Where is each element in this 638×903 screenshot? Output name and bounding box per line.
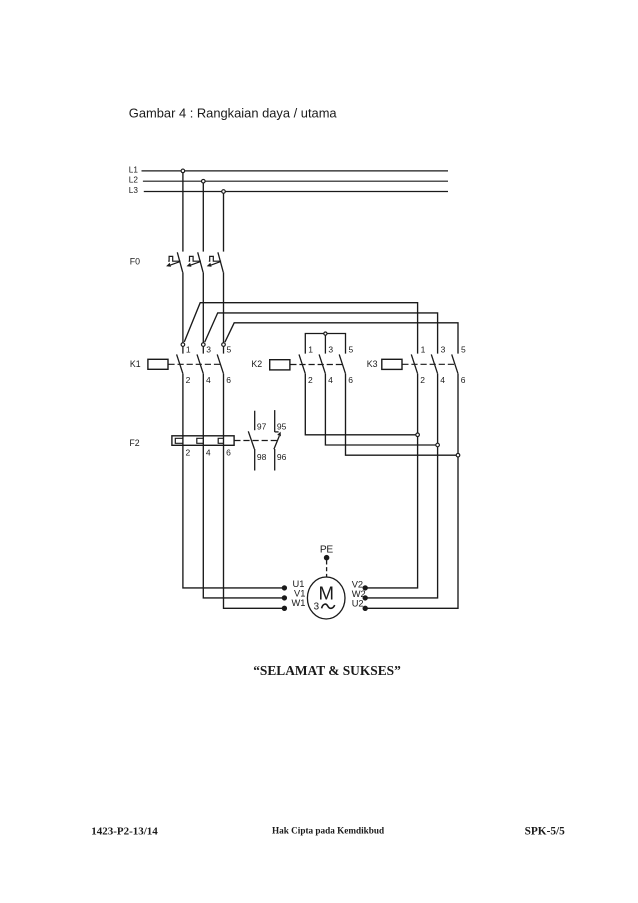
wire bus phase L2 to K3 pin 3 — [205, 313, 438, 354]
breaker F0 pole 1 — [166, 252, 183, 272]
node K1 pin 3 junction — [202, 343, 206, 347]
node motor terminal U1 — [282, 586, 286, 590]
node PE terminal dot — [324, 556, 328, 560]
F2 auxiliary NC contact seat bar — [275, 431, 279, 433]
breaker F0 pole 2 — [187, 252, 204, 272]
svg-text:W1: W1 — [292, 598, 306, 608]
wire mains L2 — [143, 180, 448, 182]
F2 auxiliary NO contact blade — [248, 431, 254, 449]
svg-text:96: 96 — [277, 452, 287, 462]
svg-text:Hak Cipta pada Kemdikbud: Hak Cipta pada Kemdikbud — [272, 826, 384, 836]
contactor K2 coil box — [270, 360, 290, 370]
contactor K2 actuator dashed link — [290, 364, 343, 366]
svg-text:“SELAMAT & SUKSES”: “SELAMAT & SUKSES” — [253, 663, 401, 678]
node tap on L3 — [222, 190, 226, 194]
overload relay F2 body — [172, 436, 234, 446]
wire F0 pole 2 to K1 pin 3 — [202, 272, 204, 343]
svg-text:M: M — [318, 582, 334, 603]
node motor terminal V1 — [282, 596, 286, 600]
svg-text:2: 2 — [186, 448, 191, 458]
contactor K3 main contact 5-6 — [452, 344, 466, 385]
motor M1 body circle — [307, 577, 345, 619]
svg-text:2: 2 — [186, 375, 191, 385]
svg-text:L2: L2 — [129, 176, 139, 185]
wire PE dashed lead to motor — [326, 560, 328, 576]
svg-text:K1: K1 — [130, 359, 141, 369]
svg-text:L1: L1 — [129, 165, 139, 174]
node motor terminal W1 — [282, 606, 286, 610]
svg-text:F2: F2 — [129, 438, 139, 448]
wire K2 pin 6 to K3 pin 6 junction — [346, 374, 459, 456]
wire K2 pin 3 stub — [324, 335, 326, 354]
svg-text:97: 97 — [257, 421, 267, 431]
wire K1 pin 2 through F2 to motor terminal — [183, 374, 285, 588]
wire F0 pole 3 to K1 pin 5 — [223, 272, 225, 343]
F2 auxiliary NC contact pin 96 wire — [274, 449, 276, 471]
svg-text:PE: PE — [320, 545, 333, 556]
svg-text:1: 1 — [421, 344, 426, 354]
node K2/K3 pin 6 junction — [456, 453, 460, 457]
node motor terminal U2 — [363, 606, 367, 610]
svg-text:F0: F0 — [130, 257, 140, 267]
svg-text:U2: U2 — [352, 599, 364, 609]
svg-text:SPK-5/5: SPK-5/5 — [525, 826, 566, 838]
wire K3 pin 4 to motor terminal — [365, 374, 437, 598]
contactor K3 coil box — [382, 359, 402, 369]
wire K3 pin 6 to motor terminal — [365, 374, 458, 609]
svg-text:6: 6 — [348, 375, 353, 385]
svg-text:5: 5 — [461, 344, 466, 354]
overload relay F2 trip dashed link — [234, 440, 277, 442]
svg-text:4: 4 — [206, 375, 211, 385]
overload relay F2 heater element pole 2 — [197, 438, 204, 443]
contactor K3 main contact 1-2 — [411, 344, 425, 385]
node motor terminal V2 — [363, 586, 367, 590]
svg-text:K2: K2 — [251, 359, 262, 369]
svg-text:V2: V2 — [352, 579, 363, 589]
F2 auxiliary NC contact pin 95 wire — [274, 410, 276, 432]
contactor K1 main contact 3-4 — [197, 344, 211, 385]
breaker F0 pole 3 — [207, 252, 224, 272]
svg-text:6: 6 — [226, 448, 231, 458]
svg-text:3: 3 — [328, 344, 333, 354]
contactor K1 main contact 1-2 — [177, 344, 191, 385]
svg-text:U1: U1 — [293, 579, 305, 589]
wire L3 drop to F0 — [223, 192, 225, 252]
overload relay F2 heater element pole 1 — [175, 438, 183, 443]
contactor K3 main contact 3-4 — [431, 344, 445, 385]
svg-text:3: 3 — [441, 344, 446, 354]
wire F0 pole 1 to K1 pin 1 — [182, 272, 184, 343]
svg-text:5: 5 — [227, 344, 232, 354]
wire K1 pin 6 through F2 to motor terminal — [224, 374, 285, 609]
svg-text:6: 6 — [461, 375, 466, 385]
node K2 star point — [324, 332, 327, 335]
F2 auxiliary NC contact blade with arrow — [274, 432, 281, 450]
node K2/K3 pin 2 junction — [416, 433, 420, 437]
svg-text:1: 1 — [186, 344, 191, 354]
node K2/K3 pin 4 junction — [436, 443, 440, 447]
wire mains L3 — [144, 191, 448, 193]
svg-text:3: 3 — [206, 344, 211, 354]
wire L1 drop to F0 — [182, 171, 184, 252]
contactor K1 main contact 5-6 — [217, 344, 231, 385]
svg-text:4: 4 — [440, 375, 445, 385]
svg-text:2: 2 — [308, 375, 313, 385]
node K1 pin 5 junction — [222, 343, 226, 347]
svg-text:4: 4 — [328, 375, 333, 385]
overload relay F2 heater element pole 3 — [218, 438, 223, 443]
svg-text:2: 2 — [420, 375, 425, 385]
wire K2 pin 2 to K3 pin 2 junction — [305, 374, 417, 435]
wire K2 pin 4 to K3 pin 4 junction — [325, 374, 437, 445]
F2 auxiliary NO contact pin 97 wire — [254, 411, 256, 431]
contactor K2 main contact 3-4 — [319, 344, 333, 385]
svg-text:Gambar 4 : Rangkaian daya / ut: Gambar 4 : Rangkaian daya / utama — [129, 106, 338, 121]
contactor K1 coil box — [148, 359, 168, 369]
node tap on L1 — [181, 169, 185, 173]
svg-text:L3: L3 — [129, 186, 139, 195]
node tap on L2 — [202, 179, 206, 183]
svg-text:4: 4 — [206, 448, 211, 458]
contactor K2 main contact 5-6 — [339, 344, 353, 385]
wire K1 pin 4 through F2 to motor terminal — [203, 374, 284, 598]
svg-text:98: 98 — [257, 452, 267, 462]
wire bus phase L3 to K3 pin 5 — [225, 323, 458, 354]
wire K2 star bridge (pins 1-3-5) — [305, 334, 345, 354]
wire L2 drop to F0 — [202, 181, 204, 251]
svg-text:V1: V1 — [294, 589, 305, 599]
svg-text:1423-P2-13/14: 1423-P2-13/14 — [91, 825, 158, 837]
svg-text:1: 1 — [308, 344, 313, 354]
motor AC tilde symbol — [322, 604, 335, 608]
svg-text:6: 6 — [226, 375, 231, 385]
node K1 pin 1 junction — [181, 343, 185, 347]
svg-text:95: 95 — [277, 421, 287, 431]
wire K3 pin 2 to motor terminal — [365, 374, 417, 588]
svg-text:K3: K3 — [367, 359, 378, 369]
svg-text:3: 3 — [314, 602, 320, 613]
contactor K2 main contact 1-2 — [299, 344, 313, 385]
node motor terminal W2 — [363, 596, 367, 600]
F2 auxiliary NO contact pin 98 wire — [254, 449, 256, 471]
wire bus phase L1 to K3 pin 1 — [184, 303, 417, 354]
svg-text:5: 5 — [349, 344, 354, 354]
wire mains L1 — [142, 170, 449, 172]
contactor K3 actuator dashed link — [402, 363, 456, 365]
contactor K1 actuator dashed link — [168, 363, 221, 365]
